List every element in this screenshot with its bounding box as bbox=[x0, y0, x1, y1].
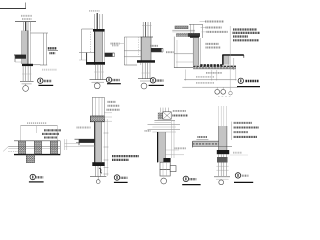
detail D6 slab line rows bbox=[148, 121, 181, 132]
detail D2 tiny note right bbox=[112, 45, 119, 47]
wire break line top-left bbox=[0, 3, 26, 9]
detail D3 upper legs bbox=[142, 22, 152, 37]
detail D4 dim text bbox=[27, 122, 47, 124]
detail D7 annotation bracket bbox=[231, 122, 233, 140]
detail D7 break lines bbox=[214, 176, 230, 178]
detail D2 step corner bbox=[86, 53, 88, 62]
detail DG level text left bbox=[166, 51, 174, 53]
detail D3 break lines bbox=[138, 78, 152, 80]
detail D2 break lines bbox=[90, 79, 107, 81]
detail D5 beam dark bar bbox=[92, 162, 104, 166]
detail D6 note rows right bbox=[172, 111, 188, 116]
detail D1 beam dark bar bbox=[22, 64, 33, 66]
detail D7 beam dark bar bbox=[217, 150, 229, 154]
detail D7 upper legs faint bbox=[219, 106, 227, 126]
detail D2 left room outline bbox=[79, 29, 95, 60]
detail D7 annotation rows bbox=[234, 123, 259, 137]
detail D3 left room outline bbox=[124, 37, 141, 65]
detail D3 wall hatch column bbox=[141, 37, 151, 60]
detail D5 faint note left bbox=[77, 127, 91, 129]
detail D2 faint text top bbox=[89, 10, 100, 12]
detail DG high roof thick line bbox=[222, 55, 244, 65]
detail D4 plan strip bbox=[8, 141, 60, 155]
detail D3 dotted stud line bbox=[138, 37, 140, 57]
detail D5 lower legs bbox=[96, 166, 101, 176]
detail D5 break line bbox=[90, 176, 106, 178]
detail DG dim texts bbox=[196, 73, 222, 83]
detail D4 stub below bbox=[26, 155, 34, 163]
detail D1 faint note row bbox=[42, 69, 57, 71]
detail D2 title mark bbox=[106, 77, 121, 84]
detail DG gutter bottom thick dashes bbox=[200, 64, 223, 66]
detail D6 step dark bar bbox=[163, 158, 170, 162]
detail D2 upper legs bbox=[95, 13, 103, 29]
detail D4 wall hatch blocks bbox=[18, 141, 57, 154]
detail DG wall cap bbox=[190, 36, 199, 38]
detail D5 top box bbox=[92, 97, 104, 116]
detail DG bottom slab hatch band bbox=[193, 58, 236, 70]
detail D5 wall hatch column bbox=[95, 122, 102, 166]
detail D6 embed box with X bbox=[158, 112, 171, 120]
detail D7 slab left bbox=[193, 141, 232, 147]
detail D5 embed block bbox=[90, 116, 104, 122]
detail D4 dim line top bbox=[20, 126, 57, 141]
detail D3 title mark bbox=[149, 78, 164, 86]
detail D2 top dark bar bbox=[93, 29, 105, 32]
detail D5 slab left extension lines bbox=[65, 139, 95, 150]
detail DG annotation leader ticks bbox=[200, 22, 207, 32]
detail D5 axis stem bbox=[97, 177, 99, 180]
detail D3 leader note left bbox=[111, 43, 125, 45]
detail D7 note above slab bbox=[196, 137, 208, 140]
detail D2 dotted stud line bbox=[90, 32, 92, 53]
detail D7 faint dots top bbox=[218, 95, 232, 97]
detail D6 boxes below bbox=[160, 162, 176, 176]
detail DG annotation rows right of parapet bbox=[205, 22, 228, 32]
detail DG dim chain below bbox=[182, 70, 237, 88]
detail D7 faint text right bbox=[233, 152, 242, 154]
detail D3 beam dark bar bbox=[137, 60, 155, 63]
detail D1 axis stem bbox=[25, 84, 27, 86]
detail D1 title mark bbox=[38, 78, 54, 85]
detail D3 level text above slab bbox=[150, 45, 158, 47]
detail D5 axis bubble bbox=[96, 180, 100, 184]
detail D5 note rows right bottom bbox=[112, 156, 139, 160]
detail DG gutter inner note bbox=[206, 44, 221, 48]
detail D7 wall hatch column bbox=[219, 126, 227, 150]
detail DG axis bubbles pair bbox=[215, 87, 226, 94]
detail D2 wall hatch column bbox=[95, 32, 105, 65]
detail D1 axis bubble bbox=[23, 86, 29, 92]
detail D6 top legs bbox=[160, 108, 168, 112]
detail D5 note rows right bbox=[107, 102, 120, 110]
detail D2 beam dark bar bbox=[86, 62, 105, 65]
detail D4 leader left bbox=[3, 147, 8, 152]
detail D1 lower legs bbox=[22, 66, 31, 81]
detail D2 lower legs bbox=[94, 65, 104, 80]
detail D1 wall hatch column bbox=[22, 31, 31, 65]
detail D3 cap line bbox=[140, 36, 153, 38]
detail D1 level label bbox=[48, 48, 58, 53]
detail DG leader bracket vertical bbox=[229, 26, 231, 91]
detail D6 note right bbox=[175, 147, 187, 149]
detail D5 dim pair right bbox=[104, 119, 109, 176]
detail D1 dim extension pair right bbox=[31, 33, 49, 65]
detail D6 axis bubble bbox=[161, 178, 167, 184]
detail D5 leader lines right bbox=[104, 113, 112, 121]
detail DG leader bracket bubble bbox=[229, 91, 233, 95]
detail D1 top cap line bbox=[15, 21, 36, 23]
detail D1 annotation text top bbox=[21, 16, 32, 19]
detail DG note paragraph right bbox=[233, 30, 261, 41]
detail D7 lower legs bbox=[216, 154, 228, 176]
detail D5 slab left bbox=[75, 139, 95, 145]
detail D2 axis bubble bbox=[94, 83, 100, 89]
detail D3 slab stub right bbox=[151, 48, 163, 52]
detail D3 axis bubble bbox=[141, 83, 147, 89]
detail D6 note left bbox=[145, 130, 151, 132]
detail D4 title mark bbox=[29, 174, 44, 182]
detail D5 title mark bbox=[114, 175, 128, 183]
detail D1 break lines bbox=[20, 80, 34, 82]
detail D3 lower legs bbox=[142, 63, 151, 79]
detail D7 rebar blob bbox=[217, 157, 228, 163]
detail DG low roof lines left bbox=[174, 37, 193, 68]
detail D6 wall hatch column bbox=[158, 132, 166, 162]
detail D6 title mark bbox=[182, 176, 200, 184]
detail D7 axis bubble bbox=[219, 180, 224, 185]
detail D5 rebar curl bbox=[99, 168, 102, 173]
detail D6 box inner studs bbox=[163, 162, 167, 176]
detail D2 slab stub right bbox=[105, 53, 115, 57]
detail D4 note block bbox=[42, 130, 61, 137]
detail DG title mark bbox=[237, 78, 260, 86]
detail D1 upper legs bbox=[23, 22, 30, 31]
detail D7 title mark bbox=[234, 173, 253, 183]
detail D1 line right of bar bbox=[33, 64, 41, 66]
detail D6 lines right bbox=[165, 149, 179, 151]
detail D7 faint line right bbox=[230, 154, 248, 156]
detail D1 slab stub left bbox=[14, 55, 26, 62]
detail DG parapet coping hatch bbox=[172, 24, 202, 38]
detail D6 dim pair right bbox=[171, 121, 174, 158]
detail DG gutter left wall hatch bbox=[193, 38, 200, 66]
